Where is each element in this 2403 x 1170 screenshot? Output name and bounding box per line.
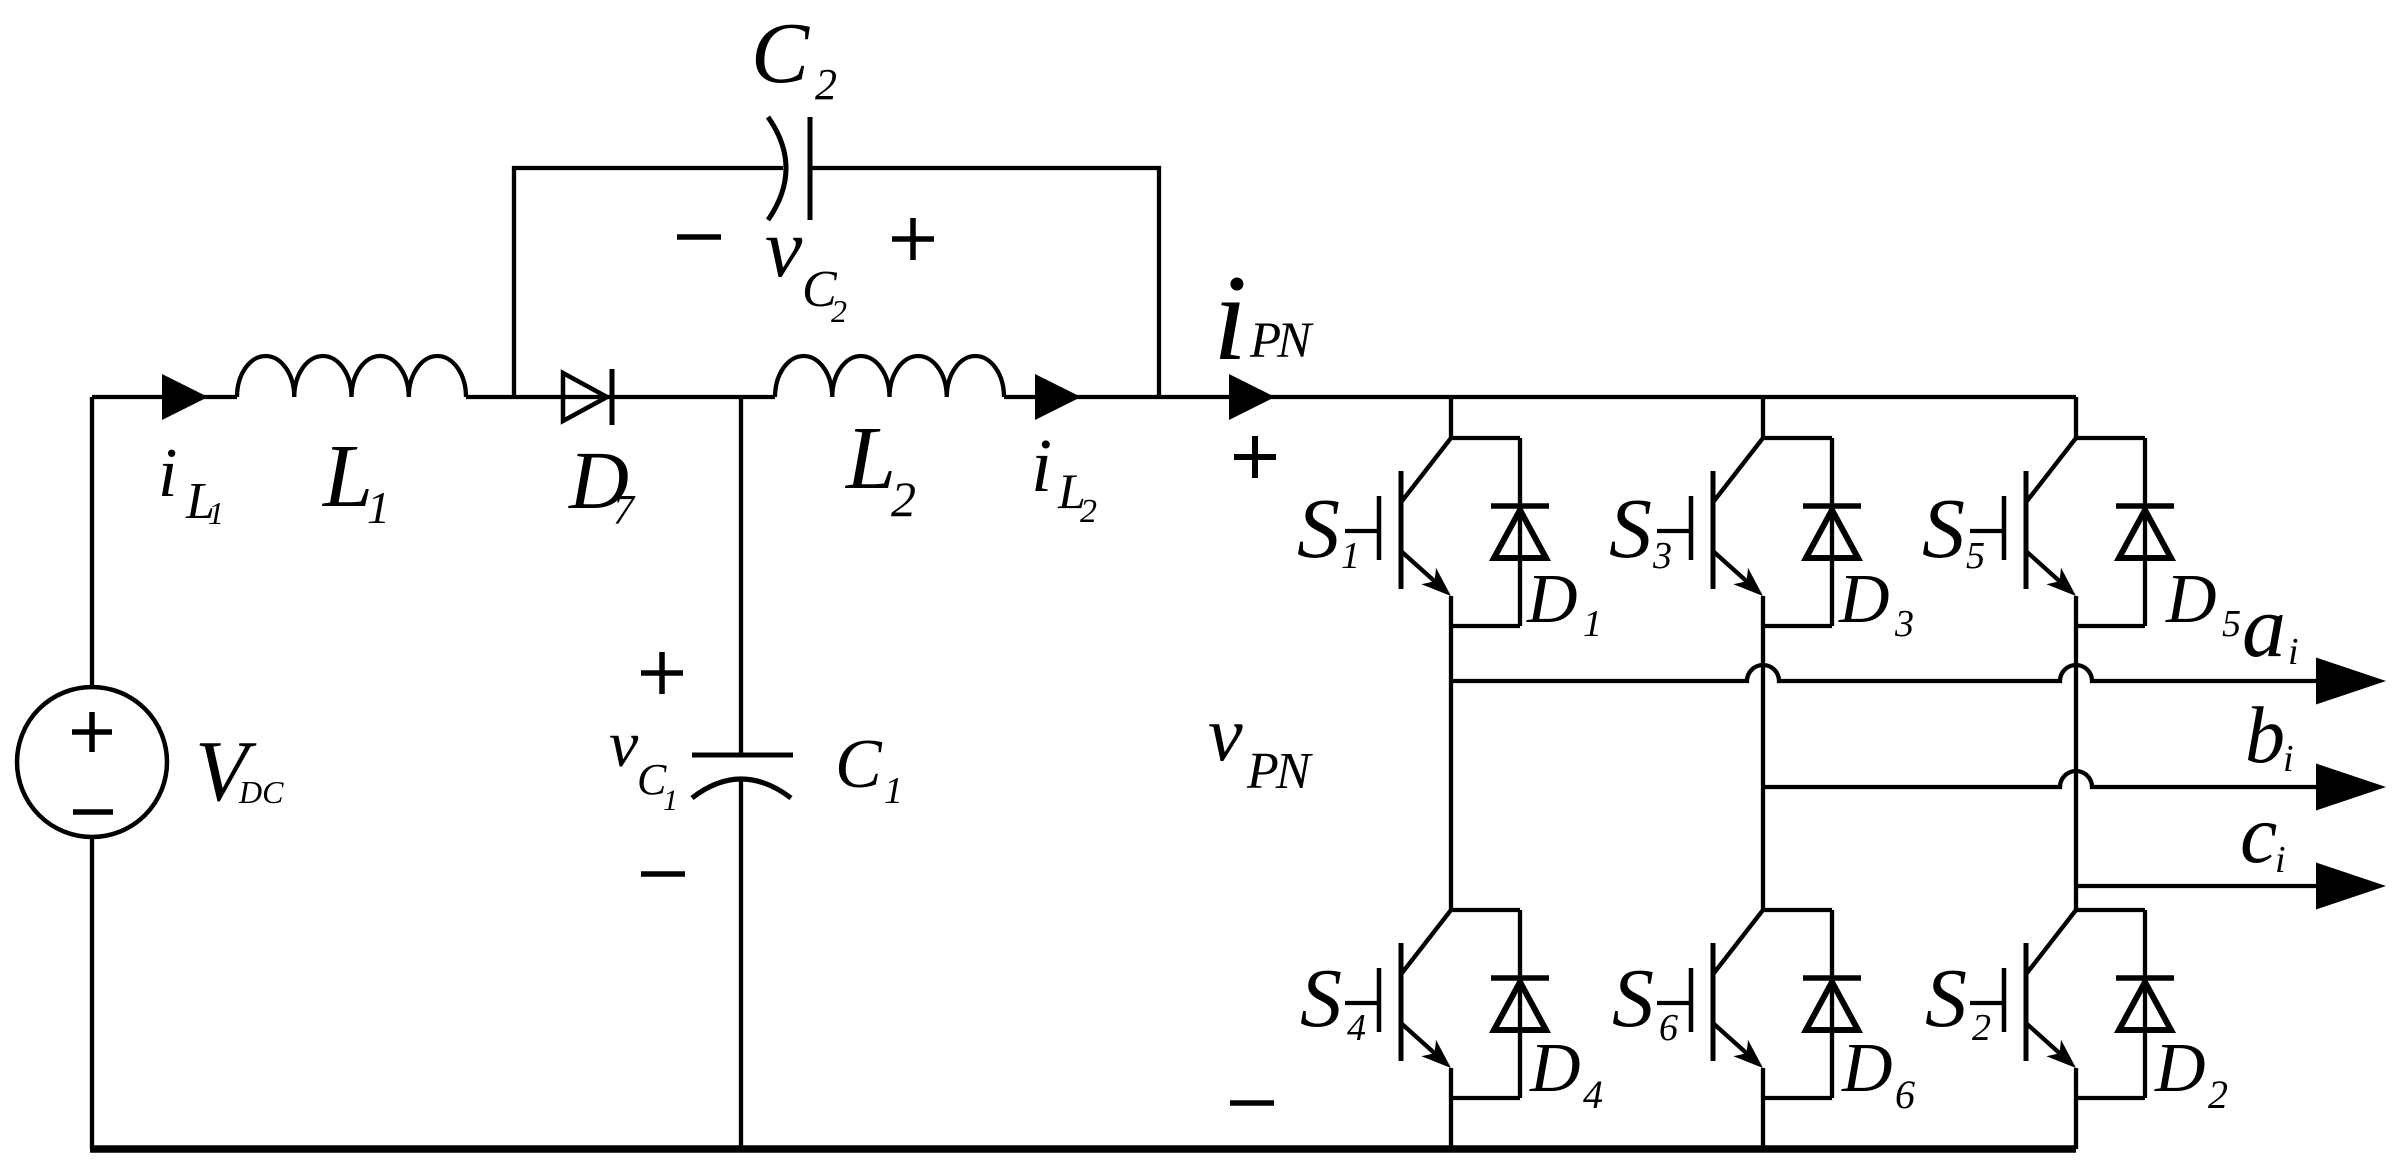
- svg-text:3: 3: [1894, 603, 1914, 645]
- svg-text:i: i: [1031, 424, 1052, 508]
- svg-text:a: a: [2242, 579, 2286, 676]
- svg-text:PN: PN: [1246, 743, 1314, 800]
- svg-text:DC: DC: [238, 774, 284, 810]
- svg-text:i: i: [2283, 738, 2294, 780]
- svg-text:S: S: [1297, 480, 1340, 576]
- svg-text:3: 3: [1652, 535, 1672, 577]
- svg-text:6: 6: [1659, 1007, 1678, 1049]
- svg-text:C: C: [835, 726, 883, 803]
- svg-text:L: L: [844, 409, 896, 508]
- svg-text:1: 1: [367, 482, 390, 533]
- svg-text:D: D: [2165, 561, 2217, 638]
- svg-text:5: 5: [2222, 603, 2241, 645]
- svg-text:S: S: [1609, 480, 1652, 576]
- svg-text:5: 5: [1966, 535, 1985, 577]
- svg-text:S: S: [1925, 952, 1967, 1045]
- svg-text:1: 1: [1341, 535, 1360, 577]
- svg-text:D: D: [1526, 561, 1578, 638]
- svg-text:D: D: [1841, 1030, 1893, 1107]
- svg-text:D: D: [1529, 1030, 1581, 1107]
- svg-text:b: b: [2245, 692, 2285, 780]
- svg-text:6: 6: [1895, 1072, 1915, 1117]
- svg-text:D: D: [2154, 1030, 2206, 1107]
- svg-text:1: 1: [884, 770, 903, 812]
- svg-text:L: L: [321, 427, 373, 526]
- svg-text:c: c: [2240, 788, 2277, 881]
- svg-text:4: 4: [1583, 1072, 1603, 1117]
- svg-text:PN: PN: [1249, 313, 1314, 369]
- svg-text:S: S: [1922, 480, 1965, 576]
- svg-text:i: i: [158, 435, 177, 512]
- svg-text:v: v: [1208, 690, 1243, 777]
- svg-text:2: 2: [891, 471, 916, 527]
- svg-text:C: C: [751, 4, 810, 101]
- svg-text:7: 7: [613, 488, 636, 534]
- svg-text:S: S: [1300, 952, 1342, 1045]
- svg-text:v: v: [765, 202, 803, 295]
- svg-text:i: i: [1213, 249, 1247, 386]
- svg-text:2: 2: [1080, 493, 1097, 530]
- svg-text:1: 1: [663, 784, 678, 817]
- svg-text:2: 2: [1972, 1007, 1991, 1049]
- svg-text:4: 4: [1347, 1007, 1366, 1049]
- svg-text:2: 2: [815, 60, 837, 109]
- svg-text:i: i: [2275, 839, 2286, 881]
- svg-text:2: 2: [2208, 1072, 2228, 1117]
- svg-text:D: D: [1838, 561, 1890, 638]
- svg-text:1: 1: [1583, 603, 1602, 645]
- svg-text:v: v: [609, 708, 639, 781]
- svg-text:S: S: [1612, 952, 1654, 1045]
- svg-text:i: i: [2288, 631, 2299, 673]
- svg-text:1: 1: [208, 495, 224, 531]
- svg-text:2: 2: [831, 293, 847, 329]
